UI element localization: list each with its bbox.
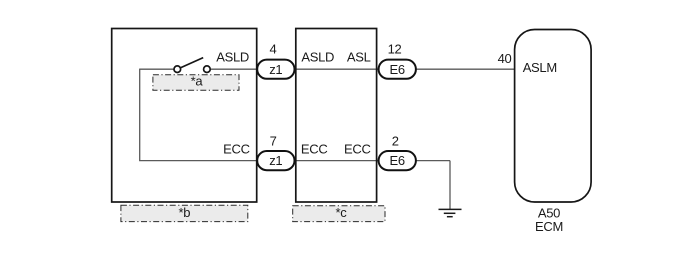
svg-text:ECC: ECC: [301, 142, 328, 157]
connector z1 (pin 4): [257, 60, 294, 79]
svg-text:ECC: ECC: [223, 142, 250, 157]
ground: [439, 209, 462, 216]
pin label ECC (junction box left): [301, 142, 328, 157]
component box: shift lock control unit (left): [112, 29, 257, 203]
svg-text:ASL: ASL: [347, 49, 371, 64]
pin number 12: [388, 41, 402, 56]
wire ASLD net (switch to ECM, top run): [210, 68, 515, 70]
designator ECM: [535, 219, 563, 234]
pin number 4: [270, 41, 277, 56]
svg-text:E6: E6: [390, 62, 405, 77]
svg-text:7: 7: [270, 133, 277, 148]
pin number 2: [392, 133, 399, 148]
wire ECC net vertical segment: [139, 69, 141, 161]
pin number 7: [270, 133, 277, 148]
svg-text:*c: *c: [336, 205, 348, 220]
connector E6 (pin 12): [379, 60, 416, 79]
connector E6 (pin 2): [379, 151, 416, 170]
wire ground drop: [449, 161, 451, 210]
switch S1 (open contacts with blade): [174, 58, 210, 73]
pin label ASLM (ECM): [523, 60, 557, 75]
svg-text:ECC: ECC: [344, 142, 371, 157]
svg-text:E6: E6: [390, 153, 405, 168]
pin label ASLD (junction box left): [301, 49, 334, 64]
pin label ASLD (left box): [216, 49, 249, 64]
svg-text:*a: *a: [191, 73, 204, 88]
connector z1 (pin 7): [257, 151, 294, 170]
label *b box: [121, 205, 248, 222]
pin number 40: [498, 51, 512, 66]
svg-text:2: 2: [392, 133, 399, 148]
wire switch feed (left contact to corner): [140, 68, 175, 70]
svg-text:z1: z1: [269, 62, 282, 77]
svg-text:12: 12: [388, 41, 402, 56]
wire ECC net (bottom run to ground drop): [139, 160, 450, 162]
svg-text:40: 40: [498, 51, 512, 66]
svg-text:ECM: ECM: [535, 219, 563, 234]
svg-text:z1: z1: [269, 153, 282, 168]
svg-text:ASLD: ASLD: [301, 49, 334, 64]
svg-text:ASLD: ASLD: [216, 49, 249, 64]
svg-text:*b: *b: [178, 205, 190, 220]
label *a box: [153, 73, 239, 90]
pin label ASL (junction box right): [347, 49, 371, 64]
designator A50: [538, 206, 560, 221]
pin label ECC (left box): [223, 142, 250, 157]
junction connector box (middle): [296, 29, 377, 203]
pin label ECC (junction box right): [344, 142, 371, 157]
label *c box: [293, 205, 385, 222]
ECM box A50: [515, 30, 592, 203]
svg-text:4: 4: [270, 41, 277, 56]
svg-text:ASLM: ASLM: [523, 60, 557, 75]
